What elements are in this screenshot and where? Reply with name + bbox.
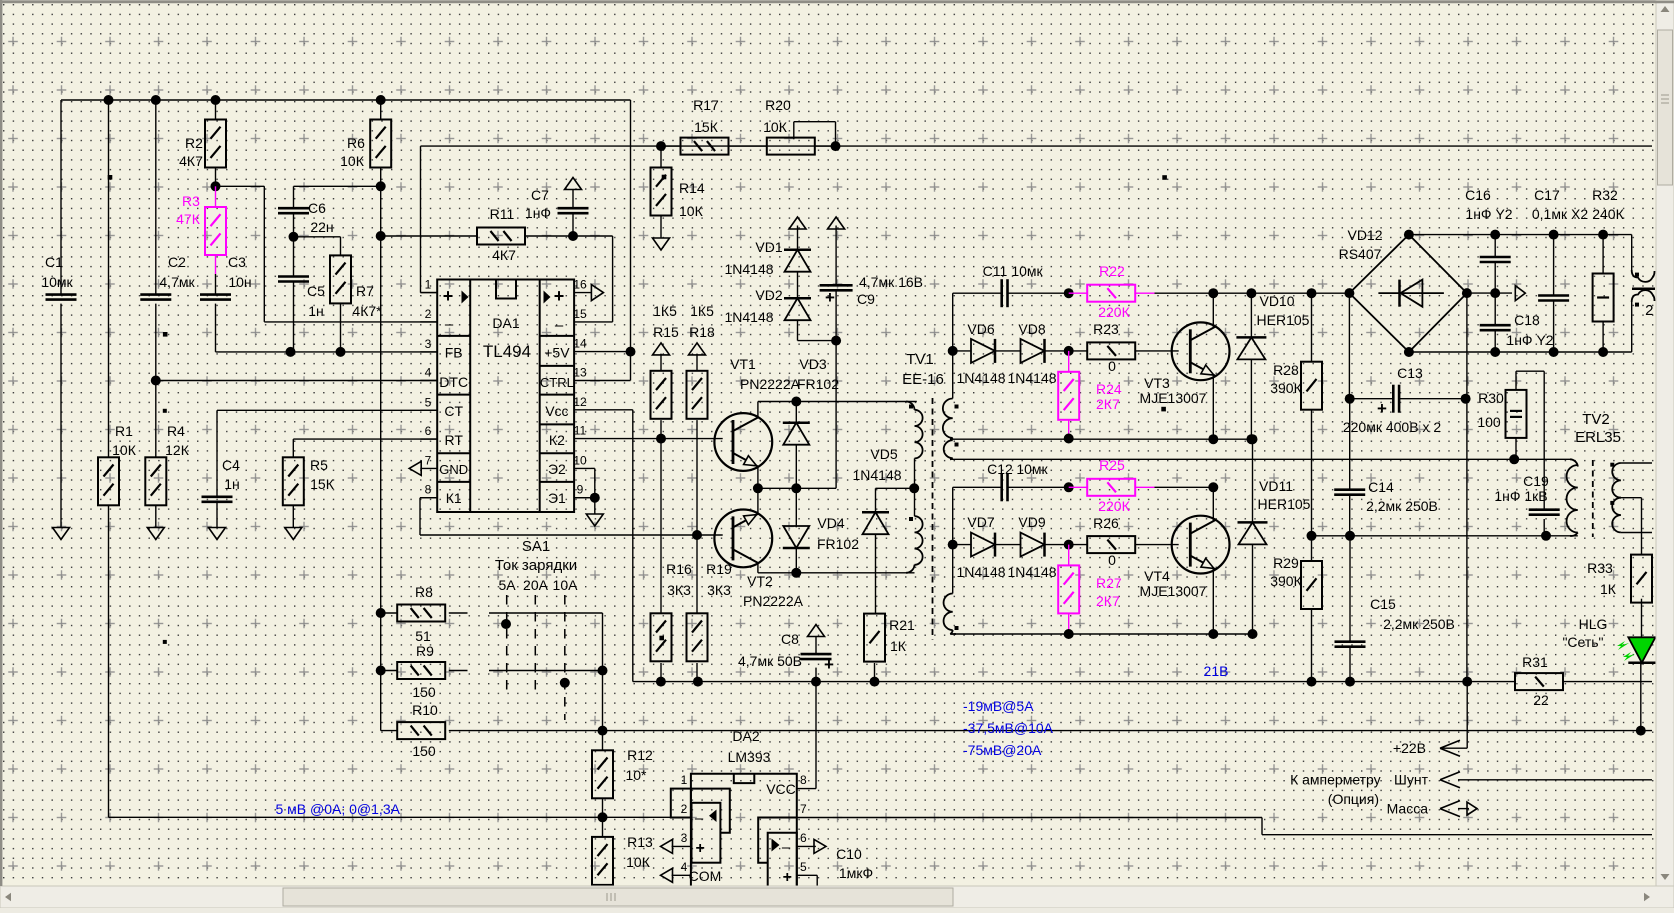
svg-text:R13: R13 — [627, 834, 653, 850]
svg-text:R27: R27 — [1096, 575, 1122, 591]
svg-text:6: 6 — [425, 424, 432, 438]
svg-text:1К: 1К — [1600, 581, 1617, 597]
svg-text:R19: R19 — [706, 561, 732, 577]
svg-text:–: – — [782, 839, 791, 856]
svg-text:2,2мк 250В: 2,2мк 250В — [1383, 616, 1455, 632]
svg-text:GND: GND — [439, 462, 468, 477]
svg-text:DA1: DA1 — [492, 315, 519, 331]
svg-text:Э2: Э2 — [548, 461, 566, 477]
svg-text:HER105: HER105 — [1257, 312, 1310, 328]
svg-text:R28: R28 — [1273, 362, 1299, 378]
svg-text:DTC: DTC — [439, 374, 468, 390]
svg-text:+: + — [1377, 399, 1387, 418]
svg-text:PN2222A: PN2222A — [743, 593, 804, 609]
svg-text:R29: R29 — [1273, 555, 1299, 571]
svg-text:1н: 1н — [224, 476, 240, 492]
svg-text:2: 2 — [425, 307, 432, 321]
svg-text:VD3: VD3 — [799, 356, 826, 372]
svg-text:4,7мк 16В: 4,7мк 16В — [859, 274, 923, 290]
svg-text:0: 0 — [1108, 552, 1116, 568]
svg-text:R10: R10 — [412, 702, 438, 718]
svg-text:10К: 10К — [763, 119, 788, 135]
svg-text:0: 0 — [1108, 358, 1116, 374]
svg-text:VD5: VD5 — [870, 446, 897, 462]
svg-text:3: 3 — [425, 337, 432, 351]
svg-text:+22В: +22В — [1393, 740, 1426, 756]
svg-text:5А: 5А — [498, 577, 516, 593]
svg-text:+: + — [696, 840, 705, 857]
svg-text:2К7: 2К7 — [1096, 593, 1120, 609]
svg-text:4: 4 — [681, 860, 688, 874]
svg-text:3К3: 3К3 — [667, 582, 691, 598]
svg-text:VD11: VD11 — [1259, 478, 1293, 494]
svg-text:R12: R12 — [627, 747, 653, 763]
svg-text:R17: R17 — [693, 97, 719, 113]
svg-text:VD8: VD8 — [1018, 321, 1045, 337]
svg-text:10К: 10К — [626, 854, 651, 870]
svg-text:8: 8 — [800, 773, 807, 787]
svg-text:R33: R33 — [1587, 560, 1613, 576]
svg-text:390К: 390К — [1270, 380, 1302, 396]
svg-text:150: 150 — [412, 743, 436, 759]
svg-text:9: 9 — [577, 483, 584, 497]
svg-text:11: 11 — [574, 424, 587, 438]
svg-text:Шунт: Шунт — [1394, 772, 1429, 788]
svg-text:+: + — [783, 869, 792, 886]
svg-text:Ток зарядки: Ток зарядки — [495, 557, 577, 574]
svg-text:2: 2 — [1645, 302, 1653, 319]
svg-text:C11: C11 — [983, 263, 1008, 279]
svg-text:–: – — [445, 316, 454, 333]
svg-text:R11: R11 — [490, 206, 515, 222]
svg-text:7: 7 — [425, 453, 432, 467]
svg-text:+: + — [443, 286, 454, 306]
svg-text:15К: 15К — [310, 476, 335, 492]
svg-text:LM393: LM393 — [728, 749, 771, 765]
svg-text:VD10: VD10 — [1259, 293, 1294, 309]
svg-text:C4: C4 — [222, 457, 240, 473]
svg-text:R25: R25 — [1099, 457, 1125, 473]
svg-text:1N4148: 1N4148 — [956, 370, 1005, 386]
svg-text:1К: 1К — [890, 638, 907, 654]
svg-text:К амперметру: К амперметру — [1290, 772, 1381, 788]
svg-text:22: 22 — [1533, 692, 1549, 708]
svg-text:R21: R21 — [889, 617, 915, 633]
svg-text:+: + — [825, 288, 835, 307]
svg-text:15: 15 — [573, 307, 587, 321]
svg-text:R15: R15 — [653, 324, 679, 340]
svg-text:VD9: VD9 — [1018, 514, 1045, 530]
svg-text:1н: 1н — [308, 303, 324, 319]
svg-text:R4: R4 — [167, 423, 185, 439]
svg-text:HLG: HLG — [1579, 616, 1608, 632]
svg-text:C10: C10 — [836, 846, 862, 862]
svg-text:PN2222A: PN2222A — [740, 376, 801, 392]
svg-text:0,1мк Х2: 0,1мк Х2 — [1532, 206, 1588, 222]
svg-text:3К3: 3К3 — [707, 582, 731, 598]
svg-text:C19: C19 — [1523, 473, 1549, 489]
svg-text:240К: 240К — [1592, 206, 1624, 222]
svg-text:20А: 20А — [523, 577, 549, 593]
svg-text:220мк 400В х 2: 220мк 400В х 2 — [1343, 419, 1441, 435]
svg-text:15К: 15К — [694, 119, 719, 135]
svg-text:1N4148: 1N4148 — [724, 261, 773, 277]
svg-text:4: 4 — [425, 366, 432, 380]
svg-text:R23: R23 — [1093, 321, 1119, 337]
svg-text:1нФ 1кВ: 1нФ 1кВ — [1494, 488, 1547, 504]
svg-text:150: 150 — [412, 684, 436, 700]
svg-text:R18: R18 — [689, 324, 715, 340]
svg-text:VT4: VT4 — [1144, 568, 1170, 584]
svg-text:2,2мк 250В: 2,2мк 250В — [1366, 498, 1438, 514]
svg-text:C15: C15 — [1370, 596, 1396, 612]
svg-text:FR102: FR102 — [797, 376, 839, 392]
svg-text:10А: 10А — [553, 577, 579, 593]
svg-text:2К7: 2К7 — [1096, 396, 1120, 412]
svg-text:"Сеть": "Сеть" — [1562, 634, 1603, 650]
svg-text:4,7мк: 4,7мк — [159, 274, 195, 290]
svg-text:FR102: FR102 — [817, 536, 859, 552]
svg-text:(Опция): (Опция) — [1328, 791, 1379, 807]
svg-text:C3: C3 — [228, 254, 246, 270]
svg-text:C17: C17 — [1534, 187, 1560, 203]
svg-text:1: 1 — [681, 773, 688, 787]
svg-text:R5: R5 — [310, 457, 328, 473]
svg-text:Масса: Масса — [1387, 801, 1429, 817]
svg-text:1N4148: 1N4148 — [1007, 370, 1056, 386]
svg-text:10К: 10К — [340, 153, 365, 169]
svg-text:21В: 21В — [1204, 663, 1229, 679]
svg-text:7: 7 — [800, 802, 807, 816]
svg-text:VT1: VT1 — [730, 356, 756, 372]
svg-text:EE-16: EE-16 — [902, 371, 944, 388]
svg-text:C14: C14 — [1368, 479, 1394, 495]
svg-text:R7: R7 — [356, 283, 374, 299]
svg-text:5: 5 — [425, 395, 432, 409]
svg-text:C1: C1 — [45, 254, 63, 270]
svg-text:10*: 10* — [625, 767, 647, 783]
svg-text:CTRL: CTRL — [540, 375, 574, 390]
svg-text:C9: C9 — [857, 291, 875, 307]
svg-text:220К: 220К — [1098, 304, 1130, 320]
svg-text:1К5: 1К5 — [690, 303, 714, 319]
svg-text:+5V: +5V — [544, 345, 570, 361]
svg-text:12: 12 — [573, 395, 587, 409]
svg-text:TV2: TV2 — [1582, 411, 1610, 428]
svg-text:DA2: DA2 — [732, 728, 759, 744]
svg-text:22н: 22н — [310, 219, 333, 235]
svg-text:10мк: 10мк — [1011, 263, 1043, 279]
svg-text:R32: R32 — [1592, 187, 1618, 203]
svg-text:CT: CT — [444, 403, 463, 419]
svg-text:1К5: 1К5 — [653, 303, 677, 319]
svg-text:10мк: 10мк — [41, 274, 73, 290]
svg-text:R8: R8 — [415, 584, 433, 600]
svg-text:VD2: VD2 — [755, 287, 782, 303]
svg-text:2: 2 — [681, 802, 688, 816]
svg-text:VT3: VT3 — [1144, 375, 1170, 391]
svg-text:12К: 12К — [165, 442, 190, 458]
svg-text:SA1: SA1 — [522, 538, 550, 555]
svg-text:R30: R30 — [1478, 390, 1504, 406]
svg-text:R2: R2 — [185, 135, 203, 151]
svg-text:10К: 10К — [112, 442, 137, 458]
svg-text:ERL35: ERL35 — [1575, 429, 1621, 446]
svg-text:VD1: VD1 — [755, 239, 782, 255]
svg-text:R20: R20 — [765, 97, 791, 113]
svg-text:5 мВ @0А; 0@1,3А: 5 мВ @0А; 0@1,3А — [276, 801, 401, 817]
svg-text:14: 14 — [573, 337, 587, 351]
svg-text:100: 100 — [1477, 414, 1501, 430]
svg-text:HER105: HER105 — [1258, 496, 1311, 512]
svg-text:6: 6 — [800, 831, 807, 845]
svg-text:390К: 390К — [1270, 573, 1302, 589]
svg-text:VT2: VT2 — [747, 573, 773, 589]
svg-text:4,7мк 50В: 4,7мк 50В — [738, 653, 802, 669]
svg-text:VD7: VD7 — [967, 514, 994, 530]
svg-text:VCC: VCC — [766, 781, 796, 797]
svg-text:MJE13007: MJE13007 — [1140, 390, 1207, 406]
svg-text:+: + — [554, 286, 565, 306]
svg-text:1нФ: 1нФ — [525, 205, 551, 221]
svg-text:10: 10 — [573, 453, 587, 467]
svg-text:–: – — [695, 810, 704, 827]
svg-text:R16: R16 — [666, 561, 692, 577]
svg-text:TV1: TV1 — [906, 351, 934, 368]
svg-text:R3: R3 — [182, 193, 200, 209]
svg-text:RT: RT — [444, 432, 463, 448]
svg-text:VD6: VD6 — [967, 321, 994, 337]
svg-text:4К7: 4К7 — [492, 247, 516, 263]
svg-text:R9: R9 — [416, 643, 434, 659]
svg-text:R1: R1 — [115, 423, 133, 439]
svg-text:47К: 47К — [176, 211, 201, 227]
svg-text:4К7*: 4К7* — [352, 303, 382, 319]
svg-text:1N4148: 1N4148 — [956, 564, 1005, 580]
svg-text:1мкФ: 1мкФ — [839, 865, 873, 881]
svg-text:К2: К2 — [549, 432, 565, 448]
svg-text:VD4: VD4 — [817, 515, 844, 531]
svg-text:1N4148: 1N4148 — [1007, 564, 1056, 580]
svg-text:+: + — [824, 655, 834, 674]
svg-text:FB: FB — [445, 345, 463, 361]
svg-text:R24: R24 — [1096, 381, 1122, 397]
svg-text:220К: 220К — [1098, 498, 1130, 514]
svg-text:10мк: 10мк — [1016, 461, 1048, 477]
svg-text:VD12: VD12 — [1347, 227, 1382, 243]
svg-text:-19мВ@5А: -19мВ@5А — [963, 698, 1034, 714]
svg-text:R26: R26 — [1093, 515, 1119, 531]
svg-text:C5: C5 — [307, 283, 325, 299]
svg-text:C13: C13 — [1397, 365, 1423, 381]
svg-text:10К: 10К — [679, 203, 704, 219]
svg-text:RS407: RS407 — [1339, 246, 1382, 262]
svg-text:C16: C16 — [1465, 187, 1491, 203]
svg-text:Э1: Э1 — [548, 490, 566, 506]
svg-text:3: 3 — [681, 831, 688, 845]
svg-text:C12: C12 — [987, 461, 1013, 477]
svg-text:4К7: 4К7 — [179, 153, 203, 169]
svg-text:5: 5 — [800, 860, 807, 874]
svg-text:1нФ Y2: 1нФ Y2 — [1465, 206, 1512, 222]
svg-text:COM: COM — [689, 868, 722, 884]
svg-text:R6: R6 — [347, 135, 365, 151]
svg-text:К1: К1 — [446, 490, 462, 506]
svg-text:1N4148: 1N4148 — [724, 309, 773, 325]
svg-text:-75мВ@20А: -75мВ@20А — [963, 742, 1042, 758]
svg-text:R31: R31 — [1522, 654, 1548, 670]
svg-text:1: 1 — [425, 278, 432, 292]
svg-text:13: 13 — [573, 366, 587, 380]
svg-text:C18: C18 — [1514, 312, 1540, 328]
svg-text:C7: C7 — [531, 187, 549, 203]
svg-text:10н: 10н — [228, 274, 251, 290]
svg-text:R14: R14 — [679, 180, 705, 196]
svg-text:C8: C8 — [781, 631, 799, 647]
svg-text:1нФ Y2: 1нФ Y2 — [1506, 332, 1553, 348]
svg-text:8: 8 — [425, 483, 432, 497]
svg-text:–: – — [555, 317, 564, 334]
svg-text:1N4148: 1N4148 — [852, 467, 901, 483]
svg-text:C2: C2 — [168, 254, 186, 270]
svg-text:Vcc: Vcc — [545, 403, 568, 419]
svg-text:MJE13007: MJE13007 — [1140, 583, 1207, 599]
svg-text:C6: C6 — [308, 200, 326, 216]
svg-text:16: 16 — [573, 278, 587, 292]
svg-text:-37,5мВ@10А: -37,5мВ@10А — [963, 720, 1054, 736]
svg-text:TL494: TL494 — [483, 342, 531, 361]
svg-text:R22: R22 — [1099, 263, 1125, 279]
svg-text:51: 51 — [415, 628, 431, 644]
